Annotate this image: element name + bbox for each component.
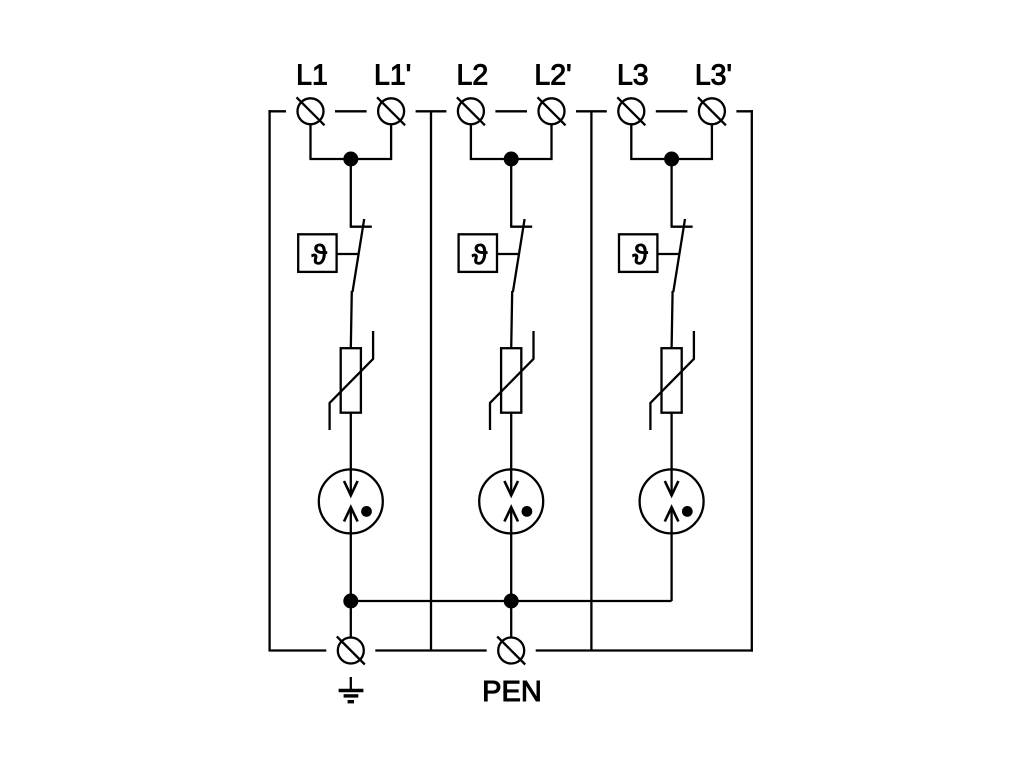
spark gap circle phase L1 [319,469,383,533]
spark gap bottom arrowhead phase L3 [665,507,679,521]
bottom frame middle segment [375,649,486,651]
wire varistor to spark gap phase L2 [510,413,512,496]
terminal L1' [377,97,405,125]
thermal disconnect switch blade phase L2 [513,219,525,292]
spark gap top arrowhead phase L2 [504,481,518,495]
wire switch to varistor phase L2 [511,291,512,348]
spark gap trigger dot phase L2 [522,506,533,517]
svg-text:PEN: PEN [482,676,542,708]
thermal disconnect switch blade phase L1 [353,219,365,292]
wire junction to switch phase L3 [670,159,672,227]
thermal disconnect switch contact phase L1 [350,226,372,228]
terminal L1 [297,97,325,125]
left frame line [268,110,270,650]
wire junction to switch phase L1 [350,159,352,227]
spark gap top arrowhead phase L1 [344,481,358,495]
terminal L2 [457,97,485,125]
varistor (MOV) phase L1 [330,331,374,430]
wire switch to varistor phase L3 [672,291,673,348]
divider line between phase 2 and 3 [590,111,592,650]
bottom frame left segment [268,649,326,651]
thermal disconnect switch blade phase L3 [673,219,685,292]
svg-text:L1: L1 [296,60,328,92]
svg-text:ϑ: ϑ [632,239,648,270]
thermal sensor box ϑ phase L1 [298,234,336,272]
wire thermal box to blade phase L1 [337,253,359,255]
svg-text:ϑ: ϑ [472,239,488,270]
wire L2 to L2' [495,110,527,112]
svg-text:L2': L2' [534,60,571,92]
terminal L3' [698,97,726,125]
svg-text:ϑ: ϑ [312,239,328,270]
spark gap circle phase L3 [640,469,704,533]
varistor (MOV) phase L2 [490,331,534,430]
svg-text:L1': L1' [374,60,411,92]
svg-text:L3: L3 [617,60,649,92]
wire varistor to spark gap phase L1 [350,413,352,496]
spark gap bottom arrowhead phase L1 [344,507,358,521]
wire varistor to spark gap phase L3 [670,413,672,496]
thermal disconnect switch contact phase L3 [671,226,693,228]
junction node bus phase L2 [504,594,519,609]
junction node phase L1 top [343,152,358,167]
junction node phase L2 top [504,152,519,167]
wire drop from terminal L2 [471,124,552,159]
terminal L3 [617,97,645,125]
terminal PEN [497,637,525,665]
divider line between phase 1 and 2 [430,111,432,650]
wire drop from terminal L3 [631,124,712,159]
thermal sensor box ϑ phase L2 [459,234,497,272]
wire drop from terminal L1 [311,124,392,159]
spark gap bottom arrowhead phase L2 [504,507,518,521]
wire L2' to L3 (crosses divider) [576,110,607,112]
thermal disconnect switch contact phase L2 [510,226,532,228]
terminal earth [337,637,365,665]
wire L3 to L3' [656,110,688,112]
spark gap top arrowhead phase L3 [665,481,679,495]
junction node phase L3 top [664,152,679,167]
wire switch to varistor phase L1 [351,291,352,348]
right frame line [751,110,753,652]
wire L1 to L1' [335,110,367,112]
thermal sensor box ϑ phase L3 [619,234,657,272]
wire spark gap to bottom bus phase L1 [350,507,352,601]
wire junction to switch phase L2 [510,159,512,227]
spark gap trigger dot phase L3 [682,506,693,517]
bottom frame right segment [536,649,753,651]
wire L3' to right frame corner [736,110,753,112]
wire L1' to L2 (crosses divider) [416,110,447,112]
wire thermal box to blade phase L3 [657,253,679,255]
wire spark gap to bottom bus phase L2 [510,507,512,601]
svg-text:L2: L2 [457,60,489,92]
ground [339,677,364,702]
wire spark gap to bottom bus phase L3 [670,507,672,601]
svg-text:L3': L3' [695,60,732,92]
terminal L2' [538,97,566,125]
spark gap trigger dot phase L1 [361,506,372,517]
bottom bus wire [351,600,672,602]
wire left frame to L1 [268,110,286,112]
wire bus to earth terminal [350,601,352,638]
varistor (MOV) phase L3 [650,331,694,430]
junction node bus phase L1 [343,594,358,609]
wire bus to PEN terminal [510,601,512,638]
wire thermal box to blade phase L2 [497,253,519,255]
spark gap circle phase L2 [479,469,543,533]
